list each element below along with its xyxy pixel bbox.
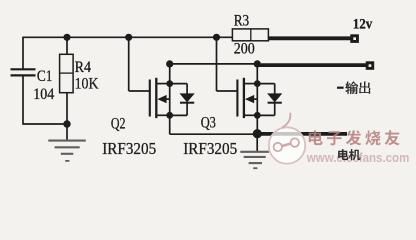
ground right — [256, 134, 258, 151]
wire thick output line — [257, 63, 366, 67]
wire Q2 gate feed — [128, 37, 130, 91]
svg-text:200: 200 — [234, 41, 255, 58]
wire Q3 gate feed — [216, 37, 218, 91]
node output rail right junction — [254, 60, 261, 67]
wire R4 bottom lead — [66, 93, 68, 124]
svg-text:10K: 10K — [75, 76, 99, 93]
node R4 top junction — [63, 34, 70, 41]
svg-text:C1: C1 — [37, 68, 53, 85]
label -输出 (negative output) — [337, 87, 344, 89]
wire Q2 drain-source vertical — [169, 64, 171, 134]
terminal 12v — [350, 34, 359, 43]
terminal output — [366, 61, 375, 70]
node Q2 source junction — [166, 112, 173, 119]
node Q2 drain junction — [166, 80, 173, 87]
wire thick stub to motor — [257, 132, 347, 136]
resistor R3 — [232, 29, 268, 41]
watermark 电子发烧友 — [309, 130, 323, 145]
wire top rail — [23, 36, 233, 38]
node ground-left junction — [63, 120, 70, 127]
wire source rail to ground — [170, 133, 258, 135]
svg-text:104: 104 — [33, 86, 54, 103]
node Q2 gate junction on top rail — [125, 34, 132, 41]
wire left drop to C1 — [22, 37, 24, 69]
node Q3 gate junction on top rail — [213, 34, 220, 41]
svg-text:Q2: Q2 — [111, 116, 126, 133]
capacitor C1 — [11, 68, 36, 70]
wire C1 bottom lead — [22, 75, 24, 124]
svg-text:12v: 12v — [353, 16, 373, 32]
wire Q3 drain-source vertical — [256, 64, 258, 134]
label 电机 (motor) — [338, 149, 348, 160]
diode Q2 body diode — [170, 83, 187, 85]
node Q3 source junction — [254, 112, 261, 119]
ground left — [66, 124, 68, 140]
wire bottom-left rail — [23, 123, 67, 125]
resistor R4 — [60, 54, 74, 92]
wire thick 12v line — [268, 36, 351, 40]
diode Q3 body diode — [257, 83, 274, 85]
node Q2 drain to rail — [166, 60, 173, 67]
svg-text:Q3: Q3 — [201, 115, 216, 132]
node source-rail ground junction — [253, 129, 262, 138]
node Q3 drain junction — [254, 80, 261, 87]
watermark elecfans logo — [269, 113, 305, 164]
svg-text:IRF3205: IRF3205 — [102, 139, 156, 158]
svg-text:R3: R3 — [234, 13, 250, 30]
transistor Q2 (IRF3205 N-MOSFET) — [129, 64, 195, 134]
transistor Q3 (IRF3205 N-MOSFET) — [216, 64, 282, 134]
svg-text:IRF3205: IRF3205 — [183, 139, 237, 158]
wire output rail (drains) — [170, 63, 258, 65]
svg-text:R4: R4 — [75, 59, 92, 76]
wire R4 top lead — [66, 37, 68, 54]
